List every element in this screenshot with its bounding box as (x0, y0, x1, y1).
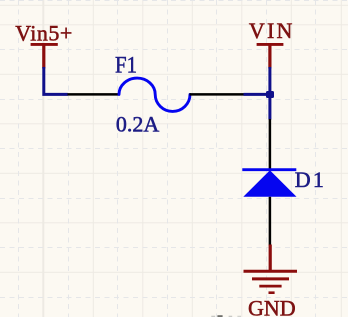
svg-text:F1: F1 (115, 53, 137, 79)
power ground GND symbol (244, 245, 298, 293)
svg-text:VIN: VIN (249, 18, 295, 43)
wire from F1 pin 2 to VIN node (244, 93, 271, 96)
svg-text:GND: GND (248, 295, 296, 317)
fuse F1 pin 2 (190, 93, 244, 96)
diode D1 pin 2 (anode, bottom) (269, 197, 272, 246)
diode D1 body (cathode bar + anode triangle) (242, 170, 296, 197)
svg-text:D1: D1 (295, 167, 326, 192)
junction at VIN node (266, 91, 274, 98)
fuse F1 body (119, 78, 190, 111)
fuse F1 pin 1 (68, 93, 120, 96)
stray mark (cut-off text) at bottom edge (211, 315, 241, 317)
power port Vin5+ (bar symbol) (31, 44, 58, 68)
power port VIN (bar symbol) (257, 44, 284, 68)
svg-text:Vin5+: Vin5+ (15, 20, 73, 45)
svg-text:0.2A: 0.2A (116, 111, 159, 136)
wire from Vin5+ port to F1 pin 1 (44, 67, 68, 94)
wire VIN node vertical (port to D1 pin 1) (268, 67, 271, 120)
diode D1 pin 1 (cathode, top) (269, 119, 272, 170)
